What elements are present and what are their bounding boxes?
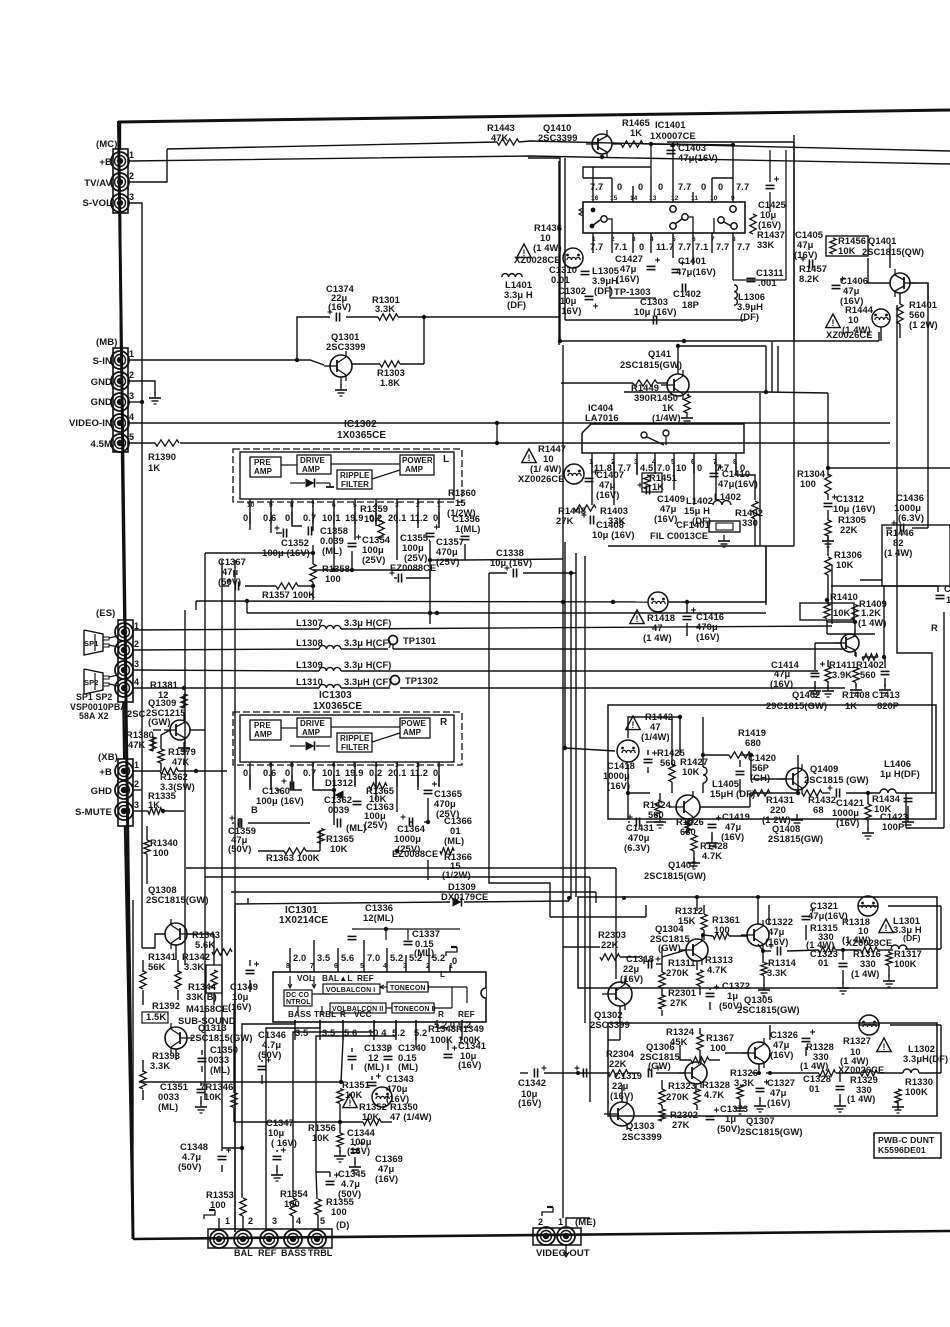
- capacitor C1341 label: [458, 1040, 486, 1070]
- IC1303 label: [313, 690, 362, 712]
- svg-text:560: 560: [648, 810, 664, 820]
- ferrite bead R1350: [372, 1087, 392, 1107]
- resistor R1351: [337, 1089, 343, 1104]
- svg-text:7.0: 7.0: [657, 463, 670, 473]
- svg-text:10μ: 10μ: [268, 1128, 285, 1138]
- resistor R1341 label: [148, 951, 176, 972]
- capacitor C partial right: [936, 584, 950, 605]
- svg-text:2SC1815(QW): 2SC1815(QW): [862, 247, 924, 257]
- resistor R1304: [825, 474, 831, 494]
- IC1302 PRE AMP box: [250, 457, 281, 477]
- IC404 label: [585, 403, 619, 423]
- svg-text:(16V): (16V): [607, 781, 630, 791]
- resistor R1381: [181, 694, 187, 708]
- resistor R1431: [750, 790, 770, 796]
- wire TV/AV net: [129, 141, 950, 182]
- wire GND3 net: [129, 401, 142, 403]
- capacitor C1340: [384, 1056, 393, 1059]
- svg-text:100: 100: [710, 1042, 726, 1053]
- svg-text:S-VOL: S-VOL: [82, 198, 112, 209]
- connector (ME) label: [575, 1217, 596, 1228]
- capacitor C1318 label: [620, 954, 654, 984]
- svg-text:1X0007CE: 1X0007CE: [650, 131, 696, 141]
- capacitor C1420: [736, 771, 745, 774]
- resistor R1366 sym: [440, 848, 454, 854]
- transistor Q1301 label: [326, 332, 365, 352]
- warning triangle R1318: [879, 919, 893, 933]
- svg-text:R1327: R1327: [843, 1035, 871, 1046]
- svg-text:(16V): (16V): [794, 249, 817, 260]
- VIDEO-OUT arrow: [563, 1245, 569, 1257]
- transistor Q141: [661, 370, 689, 400]
- svg-text:TV/AV: TV/AV: [84, 178, 112, 189]
- svg-text:10K: 10K: [836, 559, 854, 570]
- IC1301 inner top labels: [297, 974, 374, 983]
- capacitor C1345: [326, 1173, 340, 1185]
- capacitor C1326: [802, 1030, 816, 1042]
- svg-text:L1309: L1309: [296, 660, 323, 670]
- svg-text:0: 0: [243, 768, 248, 778]
- svg-text:R1353: R1353: [206, 1190, 234, 1200]
- svg-text:11.2: 11.2: [410, 768, 428, 778]
- connector (MC) body: [113, 149, 128, 213]
- svg-text:POWER: POWER: [402, 456, 433, 465]
- svg-text:47μ: 47μ: [725, 822, 742, 832]
- resistor R1365a: [369, 783, 387, 789]
- svg-text:2SC: 2SC: [127, 709, 146, 719]
- svg-text:S-IN: S-IN: [93, 356, 112, 367]
- resistor R1305: [825, 520, 831, 536]
- svg-text:(50V): (50V): [258, 1049, 281, 1060]
- svg-text:(GW): (GW): [148, 717, 171, 727]
- resistor R1393: [140, 1071, 146, 1089]
- resistor R1411 label: [829, 660, 856, 680]
- capacitor C1359: [228, 816, 256, 855]
- node Q1407 junctions: [626, 715, 870, 795]
- IC1302 POWER AMP box: [400, 455, 434, 475]
- node stageR junctions: [576, 1071, 772, 1075]
- svg-text:R1328: R1328: [806, 1042, 834, 1052]
- resistor R1306: [825, 557, 831, 575]
- svg-text:C1402: C1402: [673, 288, 701, 299]
- inductor L1406: [880, 789, 896, 793]
- resistor R1356 label: [308, 1123, 336, 1143]
- resistor R1450 label: [650, 392, 681, 423]
- capacitor C1351: [197, 1089, 206, 1092]
- capacitor C1319 label: [610, 1070, 642, 1101]
- warning triangle R1442: [626, 716, 640, 730]
- capacitor C1373: [706, 1108, 720, 1120]
- test point TP1302: [391, 676, 439, 687]
- svg-text:C1347: C1347: [266, 1118, 294, 1128]
- wire IC1303 pin stubs: [250, 762, 439, 787]
- inductor L1401 label: [504, 279, 533, 310]
- wire IC1301 internal routing: [288, 976, 467, 1014]
- inductor L1301 label: [893, 915, 922, 935]
- svg-text:10μ (16V): 10μ (16V): [833, 503, 876, 514]
- svg-text:0: 0: [638, 182, 643, 192]
- svg-text:1: 1: [437, 502, 441, 509]
- capacitor C1372 label: [719, 980, 750, 1011]
- svg-text:C1338: C1338: [496, 548, 524, 558]
- svg-text:VOLBALCON I: VOLBALCON I: [326, 987, 375, 994]
- svg-text:R1424: R1424: [643, 800, 672, 810]
- resistor R1340 label: [150, 838, 178, 858]
- svg-text:R: R: [340, 1010, 346, 1019]
- test point TP-1303: [610, 286, 656, 298]
- svg-text:1000μ: 1000μ: [603, 771, 630, 781]
- svg-text:BAL: BAL: [234, 1248, 253, 1258]
- svg-text:L: L: [440, 970, 445, 979]
- svg-text:L1308: L1308: [296, 638, 323, 648]
- transistor Q1409 label: [804, 764, 869, 785]
- wire L1309 net: [133, 670, 818, 671]
- resistor R1427 label: [680, 756, 708, 777]
- resistor R1448: [556, 505, 596, 526]
- wire VIDEO-IN net: [129, 422, 890, 424]
- connector (ES) body: [118, 620, 133, 702]
- stage R box: [608, 1023, 937, 1116]
- warning triangle R1436: [517, 244, 531, 258]
- connector (D) pin 2: [234, 1216, 253, 1248]
- connector (MC) pin names: [82, 157, 112, 209]
- IC1302 DRIVE AMP box: [297, 455, 331, 474]
- svg-text:1X0214CE: 1X0214CE: [279, 915, 328, 926]
- connector (MC) pin 1 +B: [111, 150, 134, 170]
- resistor R1335: [148, 808, 162, 814]
- capacitor C1352: [275, 526, 287, 538]
- svg-text:390: 390: [634, 392, 650, 403]
- resistor R1354 label: [280, 1189, 309, 1209]
- capacitor C1367: [227, 579, 239, 591]
- svg-text:47μ(16V): 47μ(16V): [678, 152, 718, 163]
- IC1301 L letter right: [440, 970, 445, 979]
- svg-text:1: 1: [134, 760, 139, 770]
- svg-text:330: 330: [860, 959, 876, 969]
- capacitor C1356: [452, 513, 481, 540]
- IC1427 bottom pin voltages: [590, 242, 750, 252]
- capacitor C1346: [258, 1058, 272, 1070]
- resistor R1301 label: [372, 295, 400, 314]
- transistor Q1302: [602, 978, 632, 1010]
- resistor R1314: [761, 963, 767, 976]
- svg-text:(ML): (ML): [158, 1101, 178, 1112]
- wire right verticals top: [733, 142, 794, 341]
- resistor R1314 label: [767, 958, 797, 978]
- svg-text:(1 4W): (1 4W): [858, 618, 887, 628]
- svg-text:27K: 27K: [672, 1119, 690, 1130]
- svg-text:2: 2: [416, 502, 420, 509]
- resistor R1340: [144, 840, 150, 854]
- svg-text:!: !: [632, 720, 635, 730]
- svg-text:2: 2: [538, 1217, 543, 1227]
- svg-text:PWB-C DUNT: PWB-C DUNT: [878, 1135, 935, 1145]
- transistor Q1306: [679, 1058, 707, 1088]
- resistor R1353: [240, 1198, 246, 1216]
- svg-text:56K: 56K: [148, 961, 166, 972]
- capacitor C1409 label: [654, 493, 685, 524]
- resistor R1425 label: [657, 748, 685, 768]
- svg-text:12: 12: [671, 195, 679, 202]
- svg-text:100: 100: [331, 1207, 347, 1217]
- svg-text:560: 560: [860, 670, 876, 680]
- IC1301 top voltages: [293, 953, 445, 963]
- stage L box: [578, 897, 937, 988]
- node IC1303 junctions: [332, 788, 430, 853]
- svg-text:L: L: [443, 454, 449, 465]
- resistor R1365b label: [326, 833, 354, 854]
- ferrite bead XZ0028CE: [563, 248, 583, 268]
- resistor R2302: [659, 1109, 665, 1121]
- svg-text:L1310: L1310: [296, 677, 323, 687]
- wire mid vertical buses: [550, 345, 585, 1218]
- capacitor C1344: [351, 1141, 365, 1153]
- svg-text:(50V): (50V): [717, 1123, 740, 1134]
- resistor R1342 label: [182, 951, 210, 972]
- svg-text:(GW): (GW): [648, 1060, 671, 1071]
- svg-text:IC1303: IC1303: [319, 690, 352, 701]
- svg-text:5.2: 5.2: [432, 953, 445, 963]
- ground Q1402 cluster: [809, 684, 891, 697]
- IC1302 L channel letter: [443, 454, 449, 465]
- svg-text:!: !: [883, 1042, 886, 1052]
- svg-text:27K: 27K: [670, 997, 688, 1008]
- svg-text:3: 3: [395, 502, 399, 509]
- warning triangle R1327: [877, 1038, 891, 1052]
- resistor R1418 label: [643, 612, 675, 643]
- resistor R1304 label: [797, 468, 826, 489]
- frame border bottom: [133, 1231, 950, 1239]
- svg-text:10K: 10K: [364, 513, 382, 524]
- capacitor C1360: [282, 779, 294, 791]
- part M4168CE: [186, 1003, 228, 1014]
- resistor R1402b: [853, 668, 859, 683]
- node 4.5M junction: [495, 421, 499, 445]
- svg-text:(16V): (16V): [228, 1001, 251, 1012]
- svg-text:3.3K: 3.3K: [150, 1060, 170, 1071]
- capacitor C1414: [770, 660, 825, 689]
- svg-text:SP1: SP1: [84, 639, 98, 648]
- svg-text:2SC1815(GW): 2SC1815(GW): [190, 1032, 253, 1043]
- svg-text:(6.3V): (6.3V): [898, 512, 924, 523]
- svg-text:(ML): (ML): [322, 545, 342, 556]
- svg-text:7.1: 7.1: [614, 242, 627, 252]
- svg-text:100μ (16V): 100μ (16V): [256, 795, 304, 806]
- svg-text:3.3μ H(CF): 3.3μ H(CF): [344, 638, 392, 648]
- svg-text:FIL C0013CE: FIL C0013CE: [650, 530, 708, 541]
- svg-text:XZ0026CE: XZ0026CE: [826, 329, 873, 340]
- svg-text:2.0: 2.0: [293, 953, 306, 963]
- svg-text:0.6: 0.6: [263, 768, 276, 778]
- capacitor C1328 label: [803, 1073, 831, 1094]
- capacitor C1431 label: [624, 823, 654, 853]
- svg-text:R1411: R1411: [829, 660, 856, 670]
- inductor L1310: [296, 677, 392, 688]
- svg-text:+B: +B: [99, 767, 112, 778]
- svg-text:VOL: VOL: [297, 974, 314, 983]
- svg-text:FILTER: FILTER: [341, 743, 369, 752]
- svg-text:(25V): (25V): [362, 554, 385, 565]
- wire R1418 net: [196, 546, 766, 636]
- svg-text:DRIVE: DRIVE: [300, 719, 326, 728]
- resistor R1366 label: [442, 851, 472, 880]
- part DX0179CE: [441, 892, 488, 902]
- svg-text:2SC3399: 2SC3399: [590, 1019, 630, 1030]
- svg-text:2: 2: [248, 1216, 253, 1226]
- resistor R1428: [691, 835, 697, 851]
- resistor R1349 label: [456, 1023, 484, 1045]
- resistor R1360 label: [447, 487, 476, 518]
- svg-text:REF: REF: [458, 1010, 475, 1019]
- inductor L1405 label: [710, 778, 755, 799]
- ground Q141 emitter: [681, 412, 693, 424]
- resistor R1409: [852, 605, 858, 620]
- svg-text:27K: 27K: [556, 515, 574, 526]
- svg-text:SP1 SP2: SP1 SP2: [76, 692, 112, 702]
- resistor R1358: [310, 564, 316, 582]
- svg-text:100: 100: [325, 574, 341, 584]
- resistor R1446 label: [884, 528, 914, 558]
- transistor Q1301: [324, 351, 352, 381]
- capacitor C1423: [904, 798, 913, 801]
- svg-text:15: 15: [610, 195, 618, 202]
- inductor L1308: [296, 638, 392, 649]
- part XZ0026CE low: [838, 1065, 884, 1075]
- svg-text:IC404: IC404: [588, 403, 614, 413]
- svg-text:(25V): (25V): [364, 819, 387, 830]
- capacitor C1349 label: [228, 981, 258, 1012]
- capacitor C1423 label: [880, 811, 908, 832]
- svg-text:10K: 10K: [833, 608, 851, 618]
- svg-text:01: 01: [818, 958, 829, 968]
- svg-text:BASS: BASS: [288, 1010, 312, 1019]
- wire R-channel feeds: [186, 868, 616, 1102]
- svg-text:(16V): (16V): [596, 489, 619, 500]
- svg-text:10.1: 10.1: [322, 513, 341, 523]
- capacitor C1323 label: [810, 949, 838, 968]
- transistor Q1302 label: [590, 1009, 630, 1030]
- transistor Q1305 label: [737, 994, 800, 1015]
- transistor Q1309: [164, 716, 190, 744]
- svg-text:C1318: C1318: [626, 954, 654, 964]
- ground Q1407 area: [654, 814, 914, 869]
- capacitor C1413 sym: [881, 671, 890, 674]
- svg-text:10K: 10K: [682, 766, 700, 777]
- resistor R1344 label: [186, 981, 217, 1002]
- svg-text:2SC3399: 2SC3399: [622, 1131, 662, 1142]
- capacitor C1425: [766, 150, 780, 212]
- connector header (ES) label: [96, 608, 115, 619]
- svg-text:2: 2: [129, 370, 134, 380]
- resistor R1341: [140, 971, 146, 989]
- svg-text:R: R: [931, 623, 938, 633]
- svg-text:0: 0: [639, 242, 644, 252]
- resistor R1380 label: [126, 730, 154, 750]
- svg-text:(1/2W): (1/2W): [442, 869, 471, 880]
- svg-text:11: 11: [691, 195, 698, 202]
- capacitor C1310 label: [549, 264, 577, 285]
- node R1381 top: [182, 686, 186, 690]
- svg-text:R1323: R1323: [668, 1080, 696, 1091]
- svg-text:(D): (D): [336, 1220, 350, 1231]
- svg-text:7.7: 7.7: [716, 242, 729, 252]
- svg-text:(16V): (16V): [328, 302, 351, 312]
- capacitor C1319: [648, 1066, 660, 1078]
- svg-text:Q1407: Q1407: [668, 860, 696, 870]
- connector (D) pin 4: [284, 1216, 302, 1248]
- capacitor C1416: [683, 608, 725, 643]
- resistor R1355: [315, 1199, 321, 1215]
- svg-text:(CH): (CH): [750, 772, 770, 783]
- svg-text:PRE: PRE: [254, 721, 271, 730]
- capacitor C1362 label: [324, 794, 352, 815]
- svg-text:!: !: [885, 923, 888, 933]
- svg-text:2SC1815(GW): 2SC1815(GW): [740, 1126, 803, 1137]
- transistor Q1308: [165, 919, 193, 949]
- resistor R1318 label: [842, 916, 871, 945]
- capacitor C1406: [832, 275, 869, 306]
- svg-text:3.3K: 3.3K: [767, 968, 787, 978]
- wire C1338 net: [489, 573, 576, 917]
- resistor R1434 label: [872, 793, 901, 814]
- svg-text:10K: 10K: [312, 1133, 330, 1143]
- svg-text:18P: 18P: [682, 299, 699, 310]
- svg-text:.001: .001: [758, 277, 777, 288]
- resistor R1346: [231, 1093, 237, 1108]
- svg-text:BAL▲L: BAL▲L: [322, 974, 352, 983]
- svg-text:R1356: R1356: [308, 1123, 336, 1133]
- svg-text:5: 5: [353, 502, 357, 509]
- transistor Q1307 label: [740, 1115, 803, 1137]
- resistor R1361 label: [712, 915, 740, 935]
- svg-text:100P: 100P: [882, 821, 904, 832]
- resistor R1317: [886, 953, 892, 966]
- svg-text:(6.3V): (6.3V): [624, 843, 650, 853]
- capacitor C1403: [667, 142, 718, 164]
- IC404 pin voltages: [594, 463, 745, 473]
- capacitor C1337: [352, 927, 460, 945]
- capacitor C1342: [534, 1066, 546, 1078]
- svg-text:100K: 100K: [430, 1034, 453, 1045]
- inductor L1305 label: [592, 265, 619, 296]
- svg-text:2: 2: [134, 639, 139, 649]
- resistor R1424: [643, 800, 672, 820]
- capacitor C1374 label: [326, 284, 355, 312]
- IC1302 RIPPLE FILTER box: [337, 470, 372, 489]
- svg-text:AMP: AMP: [254, 730, 273, 739]
- node stageL junctions: [567, 895, 845, 953]
- resistor R1330 label: [905, 1076, 933, 1097]
- connector (D) pin 1: [210, 1216, 230, 1248]
- inductor L1402: [713, 491, 741, 505]
- svg-text:1: 1: [129, 150, 134, 160]
- node S-IN junction: [295, 315, 426, 362]
- IC1303 inner box: [240, 715, 454, 762]
- wire frame stub MC: [120, 122, 121, 348]
- svg-text:3.3K: 3.3K: [375, 304, 395, 314]
- capacitor C1312: [824, 493, 876, 514]
- part SUB-SOUND: [178, 1015, 236, 1026]
- node Q141 junctions: [676, 344, 768, 394]
- svg-text:(25V): (25V): [404, 552, 427, 563]
- svg-text:(MB): (MB): [96, 337, 118, 348]
- capacitor C1418 label: [603, 761, 635, 791]
- resistor R1442 label: [641, 711, 673, 742]
- svg-text:0: 0: [701, 182, 706, 192]
- resistor R2301 label: [668, 987, 696, 1008]
- resistor R1329 label: [847, 1075, 878, 1104]
- IC1301 bottom voltages: [295, 1020, 471, 1038]
